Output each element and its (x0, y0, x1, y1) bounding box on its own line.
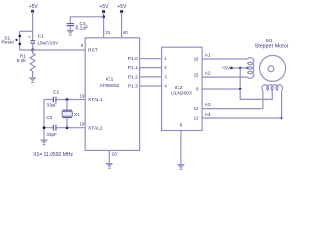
svg-text:C2: C2 (53, 89, 59, 95)
wire A3 to lower coil left (202, 90, 263, 108)
node crystal top (66, 98, 69, 101)
motor shaft circle (268, 66, 274, 72)
wire P1.0 to IC2 pin 1 (140, 58, 162, 60)
wire A1 to motor coil top (202, 58, 248, 60)
op IC1 AT89S52 box (85, 38, 139, 151)
node coil tap (246, 67, 248, 69)
svg-text:19: 19 (80, 94, 85, 99)
svg-text:40: 40 (123, 30, 128, 35)
svg-text:15: 15 (194, 73, 199, 78)
svg-text:C1: C1 (38, 34, 44, 40)
node pin9 junction (239, 88, 241, 90)
svg-text:A2: A2 (205, 71, 211, 77)
op IC2 ULN2003 box (162, 47, 203, 130)
wire caps ground rail (43, 100, 45, 140)
svg-text:X1: X1 (74, 112, 80, 118)
inductor upper winding (248, 58, 254, 79)
svg-text:RST: RST (88, 47, 98, 53)
svg-text:ULN2003: ULN2003 (171, 90, 192, 96)
wire tap down to pin9 node (239, 68, 241, 89)
svg-text:A4: A4 (205, 112, 211, 118)
svg-text:+: + (28, 35, 31, 40)
svg-text:XTAL2: XTAL2 (88, 125, 103, 131)
svg-text:XTAL1: XTAL1 (88, 97, 103, 103)
svg-text:+5V: +5V (117, 4, 127, 10)
svg-text:33pF: 33pF (46, 132, 57, 137)
svg-text:P1.1: P1.1 (128, 65, 138, 71)
node C4 tee (102, 15, 105, 18)
svg-text:10uF/16V: 10uF/16V (37, 41, 59, 47)
wire A2 to motor coil bottom (202, 76, 248, 78)
wire P1.3 to IC2 pin 4 (140, 85, 162, 87)
svg-text:+5V: +5V (221, 66, 231, 72)
capacitor C4 plates (67, 24, 74, 26)
svg-text:P1.0: P1.0 (128, 56, 138, 62)
wire C4 to ground (69, 26, 71, 30)
svg-text:IC2: IC2 (175, 85, 183, 91)
svg-text:X1= 11.0592 MHz: X1= 11.0592 MHz (33, 152, 73, 158)
svg-text:Reset: Reset (1, 40, 14, 46)
wire XTAL1 (44, 99, 85, 101)
node tap junction (239, 67, 241, 69)
ground under caps (41, 140, 48, 145)
svg-text:31: 31 (105, 30, 110, 35)
svg-text:+5V: +5V (99, 4, 109, 10)
ground under pin 20 (106, 163, 113, 168)
wire RST to IC1 pin 9 (20, 49, 86, 51)
wire +5V rail down to C1 (32, 11, 34, 40)
wire P1.2 to IC2 pin 3 (140, 76, 162, 78)
ground under R1 (29, 78, 36, 83)
wire C1 to RST node (32, 44, 34, 51)
svg-text:Stepper Motor: Stepper Motor (255, 44, 289, 50)
svg-text:33pF: 33pF (46, 103, 57, 108)
svg-text:IC1: IC1 (106, 77, 114, 83)
svg-text:C3: C3 (46, 115, 52, 121)
wire tee to C4 (70, 17, 103, 23)
ground under pin 8 (178, 164, 185, 169)
crystal X1 (62, 100, 72, 128)
wire A4 to lower coil right (202, 90, 282, 118)
svg-text:14: 14 (194, 106, 199, 111)
node XTAL2 tee (43, 126, 46, 129)
wire IC2 pin 8 to ground (180, 131, 182, 165)
switch S1 leg wires (19, 31, 21, 50)
pushbutton S1 contacts (15, 35, 21, 46)
ground under C4 (67, 30, 74, 35)
inductor lower winding (262, 85, 283, 91)
+5V terminal dot (230, 67, 233, 70)
capacitor C1 plates (28, 35, 35, 44)
wire P1.1 to IC2 pin 2 (140, 67, 162, 69)
capacitor C3 plates (53, 125, 56, 131)
svg-text:20: 20 (111, 151, 117, 157)
node crystal bottom (66, 126, 69, 129)
svg-text:P1.2: P1.2 (128, 74, 138, 80)
svg-text:P1.3: P1.3 (128, 83, 138, 89)
resistor R1 zigzag (30, 50, 35, 77)
+5V power terminal (pin 31 / C4) (99, 4, 109, 13)
node RST junction (31, 49, 34, 52)
wire +5V to IC1 pin 40 (121, 12, 123, 38)
wire +5V to coil center tap (232, 67, 248, 69)
svg-text:A1: A1 (205, 53, 211, 59)
wire IC2 pin 9 (202, 88, 240, 90)
+5V power terminal (pin 40) (117, 4, 127, 13)
wire XTAL2 (44, 127, 85, 129)
svg-text:+5V: +5V (29, 4, 39, 10)
svg-text:13: 13 (194, 115, 199, 120)
capacitor C2 plates (53, 97, 56, 103)
wire +5V to IC1 pin 31 (103, 12, 105, 38)
node A4 corner (281, 117, 283, 119)
svg-text:AT89S52: AT89S52 (99, 83, 119, 89)
+5V power terminal (reset rail) (29, 4, 39, 13)
wire IC1 pin 20 to ground (108, 150, 110, 163)
svg-text:8.2K: 8.2K (17, 58, 27, 63)
svg-text:18: 18 (80, 121, 85, 126)
svg-text:0.1uF: 0.1uF (76, 25, 89, 31)
wire pin9 node to lower coil tap (240, 89, 272, 99)
svg-text:A3: A3 (205, 102, 211, 108)
svg-text:16: 16 (194, 56, 199, 61)
motor M1 body circle (260, 55, 286, 81)
wire branch to switch top (20, 30, 33, 32)
